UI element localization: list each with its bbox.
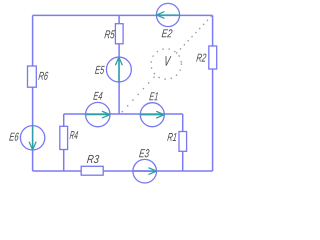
source E4 circle <box>86 102 110 126</box>
source E6 arrow (down) <box>29 126 36 150</box>
wire top (32.3,15.2)-(212.4,15.2) <box>33 14 213 16</box>
source E6 circle <box>20 126 44 150</box>
resistor R5 <box>115 24 123 44</box>
wire bottom y=171 <box>33 170 213 172</box>
source E1 arrow (right) <box>140 112 164 118</box>
label E6 <box>9 133 19 141</box>
source E3 circle <box>133 159 157 183</box>
label V <box>166 56 172 65</box>
source E2 arrow (left) <box>157 12 180 18</box>
source E2 circle <box>156 3 179 26</box>
label R4 <box>70 131 79 139</box>
source E1 circle <box>140 103 164 127</box>
label E2 <box>162 29 173 37</box>
wire left vertical x=32.3 <box>32 15 34 171</box>
source E3 wire overlay <box>133 170 150 172</box>
label E3 <box>139 149 149 157</box>
resistor R3 <box>81 166 103 175</box>
label E1 <box>149 92 158 100</box>
wire R1 branch x=182.7 <box>182 114 184 171</box>
label E5 <box>95 66 105 74</box>
resistor R1 <box>179 132 187 152</box>
wire middle horizontal y=114 <box>64 113 183 115</box>
voltmeter V dotted circle <box>151 49 181 79</box>
source E5 arrow (up) <box>116 57 123 82</box>
resistor R6 <box>28 66 37 87</box>
source E5 circle <box>106 57 131 82</box>
wire right vertical x=212.4 <box>212 15 214 171</box>
label E4 <box>93 92 103 100</box>
label R1 <box>167 133 176 141</box>
resistor R4 <box>60 126 68 149</box>
label R3 <box>87 155 99 163</box>
wire R5/E5 branch x=119.1 <box>118 15 120 114</box>
wire R4 branch x=63.7 <box>63 114 65 171</box>
source E4 arrow (right) <box>86 111 110 117</box>
resistor R2 <box>209 46 217 69</box>
label R6 <box>38 72 48 80</box>
source E3 arrow (right) <box>144 168 157 174</box>
dotted leader line upper segment (voltmeter to top-right corner) <box>177 16 212 53</box>
dotted leader line lower segment (junction to voltmeter) <box>122 73 157 111</box>
label R2 <box>196 54 206 62</box>
label R5 <box>104 30 115 38</box>
